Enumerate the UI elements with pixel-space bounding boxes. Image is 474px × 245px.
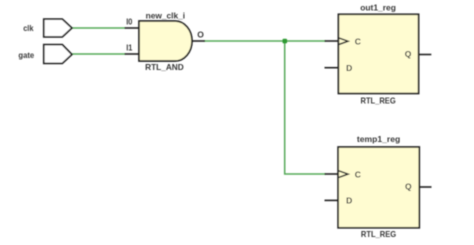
register out1_reg body [338, 14, 418, 93]
svg-text:RTL_REG: RTL_REG [361, 229, 397, 239]
svg-text:C: C [355, 36, 361, 46]
pin stub Q out1_reg [419, 54, 432, 56]
pin stub Q temp1_reg [419, 186, 431, 188]
svg-text:clk: clk [23, 23, 34, 33]
svg-text:Q: Q [405, 182, 412, 192]
pin stub I1 [125, 53, 140, 55]
pin stub D out1_reg [325, 67, 339, 69]
input port clk [44, 19, 72, 37]
wire gate net [72, 53, 126, 55]
svg-text:gate: gate [18, 50, 34, 60]
svg-text:out1_reg: out1_reg [360, 2, 396, 12]
svg-text:O: O [197, 29, 204, 39]
pin stub O [192, 40, 205, 42]
node junction on output net [283, 39, 288, 44]
svg-text:I1: I1 [126, 43, 132, 53]
input port gate [44, 45, 72, 64]
svg-text:D: D [346, 63, 352, 73]
clock triangle temp1_reg [339, 171, 348, 178]
pin stub D temp1_reg [325, 199, 339, 201]
pin stub C temp1_reg [325, 173, 339, 175]
svg-text:new_clk_i: new_clk_i [146, 10, 186, 20]
and-gate new_clk_i [139, 21, 192, 61]
pin stub C out1_reg [325, 40, 339, 42]
wire vertical branch to temp1_reg [285, 41, 326, 174]
register temp1_reg body [338, 147, 419, 228]
svg-text:RTL_AND: RTL_AND [145, 62, 184, 72]
clock triangle out1_reg [339, 38, 348, 45]
wire clk net [72, 27, 126, 29]
pin stub I0 [125, 27, 140, 29]
svg-text:RTL_REG: RTL_REG [361, 95, 397, 105]
svg-text:temp1_reg: temp1_reg [357, 134, 400, 144]
svg-text:Q: Q [405, 49, 412, 59]
svg-text:D: D [346, 195, 352, 205]
wire new_clk_i output net [204, 40, 326, 42]
svg-text:I0: I0 [126, 17, 132, 27]
svg-text:C: C [355, 169, 361, 179]
